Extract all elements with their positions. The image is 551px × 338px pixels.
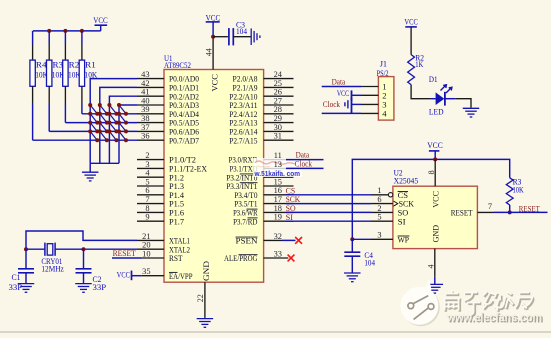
power VCC top-middle [206, 14, 221, 37]
svg-text:41: 41 [141, 88, 149, 97]
svg-text:C1: C1 [12, 273, 21, 282]
wire R1 top lead [81, 31, 83, 60]
wire R3 top lead [48, 31, 50, 60]
U1 pin 6 P1.4 [137, 186, 185, 200]
key switch row3 col1 [88, 121, 99, 134]
U1 pin 2 P1.0/T2 [137, 151, 196, 165]
memory U2 X25045 body [393, 186, 478, 248]
svg-text:P3.4/T0: P3.4/T0 [234, 191, 257, 200]
wire LED cathode [445, 98, 456, 100]
U1 pin 3 P1.1/T2-EX [137, 160, 207, 174]
U2 pin 4 GND [426, 249, 435, 285]
svg-text:P0.3/AD3: P0.3/AD3 [169, 101, 199, 110]
svg-text:33P: 33P [9, 283, 23, 292]
wire matrix ground stem [89, 163, 91, 171]
U1 pin 37 P0.6/AD6 [137, 123, 199, 137]
svg-text:AT89C52: AT89C52 [164, 60, 191, 70]
resistor R2 1K [408, 53, 424, 84]
svg-text:30: 30 [274, 123, 282, 132]
crystal CRY01 12MHz [41, 243, 64, 274]
capacitor C1 33P [9, 269, 35, 292]
wire LED to ground [456, 99, 471, 108]
svg-text:33P: 33P [93, 283, 107, 292]
U1 pin 32 PSEN [236, 232, 296, 246]
ground LED [463, 108, 480, 117]
svg-text:31: 31 [274, 132, 282, 141]
key switch row4 col2 [98, 129, 109, 142]
wire VCC bus to resistors [33, 30, 101, 32]
wire CS net [286, 194, 371, 196]
svg-text:P0.0/AD0: P0.0/AD0 [169, 75, 199, 84]
svg-text:WP: WP [398, 235, 410, 244]
svg-text:17: 17 [274, 195, 282, 204]
svg-text:1: 1 [377, 186, 381, 195]
svg-text:RST: RST [169, 254, 183, 263]
no-connect X on PSEN [295, 237, 302, 244]
svg-text:20: 20 [142, 241, 150, 250]
wire LED anode [431, 98, 436, 100]
svg-text:D1: D1 [429, 75, 438, 84]
svg-text:P1.3: P1.3 [169, 182, 184, 191]
U1 pin 8 P1.6 [137, 204, 184, 218]
svg-text:P1.5: P1.5 [169, 200, 184, 209]
node VCC rail junction [433, 157, 437, 161]
key switch row1 col1 [88, 103, 99, 116]
wire resistor bottom lead [81, 86, 83, 114]
svg-text:P3.5/T1: P3.5/T1 [234, 200, 257, 209]
svg-text:PSEN: PSEN [236, 237, 258, 246]
J1 pin 4 [361, 108, 387, 118]
U2 pin 8 VCC [427, 159, 441, 207]
wire C1 stem [25, 249, 27, 269]
svg-text:P2.0/A8: P2.0/A8 [233, 75, 258, 84]
wire matrix ground bar [90, 162, 119, 164]
wire RESET net at RST [112, 257, 142, 259]
key switch row3 col3 [107, 121, 118, 134]
svg-text:5: 5 [377, 213, 381, 222]
wire WP junction [350, 237, 371, 241]
svg-text:13: 13 [274, 160, 282, 169]
svg-text:8: 8 [145, 204, 149, 213]
key switch row3 col2 [98, 121, 109, 134]
U1 pin 25 P2.1/A9 [233, 79, 294, 93]
U1 pin 44 VCC [205, 37, 220, 92]
key switch row1 col4 [117, 103, 128, 116]
svg-text:2: 2 [145, 151, 149, 160]
resistor R3 10K [47, 60, 65, 86]
svg-text:www.elecfans.com: www.elecfans.com [446, 310, 542, 324]
svg-text:P1.4: P1.4 [169, 191, 185, 200]
U1 pin 9 P1.7 [137, 213, 184, 227]
svg-text:P2.4/A12: P2.4/A12 [229, 110, 257, 119]
svg-text:P1.0/T2: P1.0/T2 [169, 156, 196, 165]
U1 pin 36 P0.7/AD7 [137, 132, 199, 146]
label RESET right [519, 203, 540, 213]
svg-text:32: 32 [274, 232, 282, 241]
label SO near U1 [286, 203, 296, 213]
U1 pin 16 P3.4/T0 [234, 186, 293, 200]
power VCC at R2 [404, 18, 418, 55]
svg-text:P2.3/A11: P2.3/A11 [229, 101, 257, 110]
wire C4 stem [351, 239, 353, 252]
svg-text:16: 16 [274, 186, 282, 195]
power VCC top-left [93, 16, 108, 31]
svg-text:3: 3 [145, 160, 149, 169]
node crystal left [24, 247, 28, 251]
wire Data to J1 [322, 86, 361, 88]
U1 pin 14 P3.2/INT0 [226, 169, 293, 183]
svg-text:R3: R3 [53, 61, 64, 70]
connector J1 designator [377, 60, 389, 78]
node crystal right [82, 247, 86, 251]
wire C1 to ground [25, 273, 27, 283]
node junction R1 top [80, 29, 84, 33]
svg-text:Data: Data [332, 76, 346, 86]
label Clock at J1 [323, 99, 341, 109]
wire RESET net right [494, 211, 548, 213]
svg-text:24: 24 [274, 70, 283, 79]
svg-text:XTAL1: XTAL1 [169, 237, 190, 246]
power VCC at J1 [337, 89, 352, 101]
wire P0.7 row [33, 139, 137, 141]
svg-text:VCC: VCC [93, 16, 108, 25]
node R3 RESET junction [508, 210, 512, 214]
svg-text:P3.2/INT0: P3.2/INT0 [226, 173, 257, 182]
svg-text:XTAL2: XTAL2 [169, 245, 190, 254]
U1 pin 27 P2.3/A11 [229, 96, 293, 110]
U1 pin 11 P3.0/RXD [229, 151, 294, 165]
svg-text:28: 28 [274, 105, 282, 114]
wire P0.6 row [49, 130, 137, 132]
svg-text:VCC: VCC [427, 141, 443, 150]
J1 pin 3 [361, 99, 387, 109]
ground matrix [82, 172, 99, 181]
svg-text:LED: LED [429, 107, 444, 116]
svg-text:EA/VPP: EA/VPP [169, 272, 193, 281]
svg-text:1K: 1K [415, 60, 423, 69]
ground C4 [344, 273, 361, 282]
key switch row3 col4 [117, 121, 128, 134]
U2 pin 7 RESET [451, 202, 494, 218]
wire P0.1 row to matrix column [100, 87, 137, 163]
svg-text:CS: CS [398, 191, 409, 200]
key switch row1 col2 [98, 103, 109, 116]
label CS near U1 [286, 185, 296, 195]
wire XTAL2 route [84, 248, 138, 250]
wire crystal left lead [26, 248, 45, 250]
wire C3 to ground [233, 36, 251, 38]
wire P0.5 row [65, 122, 137, 124]
svg-text:P0.2/AD2: P0.2/AD2 [169, 92, 199, 101]
U2 pin 3 WP [371, 231, 409, 245]
U1 pin 31 P2.7/A15 [229, 132, 293, 146]
U2 pin 2 SO [371, 204, 408, 218]
key switch row4 col3 [107, 129, 118, 142]
svg-text:P2.1/A9: P2.1/A9 [233, 84, 258, 93]
ground U1 pin 22 [197, 319, 214, 328]
wire P0.3 row to matrix column [119, 105, 137, 163]
svg-text:21: 21 [142, 232, 150, 241]
memory U2 designator [394, 167, 419, 185]
U1 pin 24 P2.0/A8 [233, 70, 294, 84]
U1 pin 17 P3.5/T1 [234, 195, 293, 209]
U1 pin 40 P0.3/AD3 [137, 96, 199, 110]
svg-text:ALE/PROG: ALE/PROG [224, 254, 258, 263]
wire P0.2 row to matrix column [109, 96, 137, 163]
svg-text:P1.1/T2-EX: P1.1/T2-EX [169, 165, 207, 174]
U1 pin 35 EA/VPP [142, 267, 193, 281]
power VCC above U2 [427, 141, 443, 160]
svg-text:SI: SI [286, 212, 294, 222]
svg-text:35: 35 [142, 267, 150, 276]
svg-text:104: 104 [364, 258, 375, 267]
svg-text:39: 39 [141, 105, 149, 114]
wire SCK net [286, 203, 371, 205]
svg-text:P0.7/AD7: P0.7/AD7 [169, 136, 199, 145]
svg-text:P3.3/INT1: P3.3/INT1 [226, 182, 257, 191]
wire SI net [286, 220, 371, 222]
svg-text:P0.6/AD6: P0.6/AD6 [169, 128, 199, 137]
label Clock [295, 158, 313, 168]
resistor R3 10K [506, 177, 523, 205]
key switch row2 col2 [98, 112, 109, 125]
wire Data net [286, 159, 324, 161]
wire crystal right lead [55, 248, 83, 250]
svg-text:P2.6/A14: P2.6/A14 [229, 128, 258, 137]
U1 pin 43 P0.0/AD0 [137, 70, 199, 84]
U1 pin 21 XTAL1 [137, 232, 190, 246]
label Data at J1 [332, 76, 346, 86]
svg-text:P2.2/A10: P2.2/A10 [229, 92, 257, 101]
label RESET at RST [113, 248, 137, 258]
svg-text:Clock: Clock [295, 158, 313, 168]
svg-text:VCC: VCC [337, 89, 349, 98]
U1 pin 20 XTAL2 [137, 241, 190, 255]
svg-text:R2: R2 [69, 61, 80, 70]
LED D1 [429, 75, 452, 116]
svg-text:P3.6/WR: P3.6/WR [233, 209, 258, 218]
wire Clock to J1 [322, 112, 361, 114]
wire R2 top lead [64, 31, 66, 60]
wire SO net [286, 211, 371, 213]
U1 pin 19 P3.7/RD [233, 213, 293, 227]
svg-text:29: 29 [274, 114, 282, 123]
J1 pin 2 [361, 90, 387, 100]
ground C1 [18, 284, 35, 293]
svg-text:P0.5/AD5: P0.5/AD5 [169, 119, 199, 128]
svg-text:26: 26 [274, 88, 282, 97]
wire R2 to LED [411, 85, 431, 99]
U1 pin 30 P2.6/A14 [229, 123, 293, 137]
svg-text:37: 37 [141, 123, 149, 132]
svg-text:44: 44 [205, 48, 214, 56]
node junction R2 top [63, 29, 67, 33]
U1 designator [164, 53, 191, 70]
svg-text:SI: SI [398, 217, 406, 226]
node C3 junction [211, 35, 215, 39]
U1 pin 4 P1.2 [137, 169, 184, 183]
power VCC at EA/VPP [117, 270, 142, 280]
wire XTAL1 route [26, 231, 137, 249]
svg-text:4: 4 [382, 108, 387, 118]
svg-text:SCK: SCK [399, 200, 414, 209]
key switch row2 col1 [88, 112, 99, 125]
U1 pin 38 P0.5/AD5 [137, 114, 199, 128]
svg-text:P3.7/RD: P3.7/RD [233, 217, 257, 226]
U1 pin 33 ALE/PROG [224, 249, 288, 263]
svg-text:P0.4/AD4: P0.4/AD4 [169, 110, 200, 119]
U1 pin 26 P2.2/A10 [229, 88, 293, 102]
U1 pin 13 P3.1/TXD [230, 160, 294, 174]
svg-text:R4: R4 [36, 61, 47, 70]
no-connect X on ALE/PROG [288, 255, 295, 262]
U1 pin 39 P0.4/AD4 [137, 105, 200, 119]
ground C2 [75, 284, 92, 293]
U1 pin 10 RST [142, 249, 183, 263]
U1 pin 5 P1.3 [137, 177, 184, 191]
svg-text:VCC: VCC [117, 270, 130, 279]
svg-text:12MHz: 12MHz [41, 265, 64, 274]
svg-text:104: 104 [236, 27, 247, 36]
key switch row4 col1 [88, 129, 99, 142]
label SCK near U1 [286, 194, 301, 204]
svg-text:38: 38 [141, 114, 149, 123]
connector J1 PS/2 body [378, 77, 394, 121]
svg-text:33: 33 [274, 249, 282, 258]
svg-text:GND: GND [431, 225, 440, 243]
svg-text:J1: J1 [380, 60, 387, 69]
resistor R2 10K [63, 60, 81, 86]
svg-text:22: 22 [196, 294, 205, 302]
U1 pin 29 P2.5/A13 [229, 114, 293, 128]
wire P0.0 row to matrix column [90, 79, 137, 164]
svg-text:7: 7 [145, 195, 149, 204]
svg-text:R1: R1 [85, 61, 96, 70]
capacitor C4 104 [344, 251, 375, 267]
label SI near U1 [286, 212, 294, 222]
svg-text:19: 19 [274, 213, 282, 222]
svg-text:7: 7 [488, 202, 492, 211]
wire resistor bottom lead [64, 86, 66, 122]
wire C2 stem [83, 249, 85, 269]
svg-text:2: 2 [377, 204, 381, 213]
wire resistor bottom lead [32, 86, 34, 140]
wire C2 to ground [83, 273, 85, 283]
svg-text:6: 6 [377, 195, 381, 204]
U2 GND rotated text [431, 225, 440, 243]
key switch row2 col3 [107, 112, 118, 125]
watermark elecfans logo [400, 279, 543, 326]
wire R4 top lead [32, 31, 34, 60]
svg-text:40: 40 [141, 96, 149, 105]
node junction R3 top [47, 29, 51, 33]
svg-text:RESET: RESET [113, 248, 137, 258]
svg-text:43: 43 [141, 70, 149, 79]
resistor R4 10K [30, 60, 48, 86]
svg-text:VCC: VCC [431, 190, 440, 207]
svg-text:SO: SO [398, 209, 409, 218]
ground U2 [427, 284, 444, 293]
svg-text:10: 10 [142, 249, 150, 258]
ground C3 sideways [251, 28, 260, 45]
svg-text:w.51kaifa. com: w.51kaifa. com [254, 171, 300, 178]
svg-text:Clock: Clock [323, 99, 341, 109]
svg-text:8: 8 [427, 170, 436, 174]
key switch row2 col4 [117, 112, 128, 125]
svg-text:42: 42 [141, 79, 149, 88]
U2 pin 6 SCK [371, 195, 414, 209]
watermark 51kaifa box [253, 158, 302, 178]
wire Clock net [286, 167, 324, 169]
U1 pin 42 P0.1/AD1 [137, 79, 199, 93]
wire P0.4 row [82, 113, 137, 115]
svg-text:3: 3 [377, 231, 381, 240]
wire J1 pin3 to ground [352, 103, 362, 105]
U1 pin 41 P0.2/AD2 [137, 88, 199, 102]
svg-text:10K: 10K [513, 186, 524, 195]
svg-text:4: 4 [426, 265, 435, 269]
svg-text:RESET: RESET [519, 203, 540, 213]
capacitor C3 104 [229, 21, 247, 46]
svg-text:36: 36 [141, 132, 149, 141]
svg-text:P1.6: P1.6 [169, 209, 184, 218]
capacitor C2 33P [76, 269, 107, 292]
U1 pin 7 P1.5 [137, 195, 184, 209]
svg-text:9: 9 [145, 213, 149, 222]
U1 pin 18 P3.6/WR [233, 204, 293, 218]
U1 pin 22 GND [196, 261, 211, 318]
svg-text:27: 27 [274, 96, 282, 105]
svg-text:P2.5/A13: P2.5/A13 [229, 119, 257, 128]
svg-text:6: 6 [145, 186, 149, 195]
svg-text:P2.7/A15: P2.7/A15 [229, 136, 257, 145]
svg-text:P1.7: P1.7 [169, 217, 184, 226]
svg-text:X25045: X25045 [394, 176, 419, 186]
J1 pin 1 [361, 82, 387, 92]
svg-text:RESET: RESET [451, 209, 473, 218]
svg-text:GND: GND [202, 261, 211, 281]
key switch row4 col4 [117, 129, 128, 142]
svg-text:P0.1/AD1: P0.1/AD1 [169, 84, 199, 93]
U1 pin 15 P3.3/INT1 [226, 177, 293, 191]
wire resistor bottom lead [48, 86, 50, 131]
label Data [296, 149, 310, 159]
svg-text:P1.2: P1.2 [169, 173, 184, 182]
U2 pin 1 CS [371, 186, 408, 200]
key switch row1 col3 [107, 103, 118, 116]
svg-text:VCC: VCC [210, 74, 219, 92]
wire VCC rail [352, 159, 509, 239]
U1 pin 28 P2.4/A12 [229, 105, 293, 119]
svg-text:15: 15 [274, 177, 282, 186]
wire J1 pin2 to VCC [352, 94, 362, 96]
resistor R1 10K [79, 60, 97, 86]
svg-text:5: 5 [145, 177, 149, 186]
svg-text:VCC: VCC [404, 18, 418, 27]
U1 AT89C52 body [164, 70, 264, 283]
svg-text:18: 18 [274, 204, 282, 213]
wire R3 bottom [509, 205, 511, 213]
wire to C3 [213, 36, 228, 38]
ground J1 sideways [345, 98, 352, 114]
U2 pin 5 SI [371, 213, 406, 227]
svg-text:25: 25 [274, 79, 282, 88]
wire C4 to ground [351, 256, 353, 272]
